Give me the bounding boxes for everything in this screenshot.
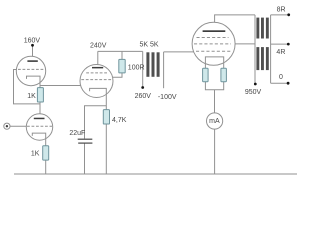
V2 anode bar [34, 118, 45, 120]
V1 cathode [27, 76, 41, 85]
transformer T1 core bars [146, 52, 149, 77]
pentode V3 envelope [80, 65, 113, 98]
node dot 260V [141, 86, 144, 89]
triode V1 envelope [16, 56, 45, 85]
svg-text:8R: 8R [277, 7, 286, 14]
svg-text:-100V: -100V [158, 94, 177, 101]
node dot 4R [287, 43, 290, 46]
svg-text:240V: 240V [90, 43, 107, 50]
wire 240V rail to interstage [98, 50, 143, 52]
svg-text:160V: 160V [24, 38, 41, 45]
wire V1 cathode to V3 grid [40, 85, 81, 87]
wire V3 cathode branch to C1 [85, 106, 107, 139]
svg-text:100R: 100R [128, 65, 145, 72]
node dot 160V [31, 44, 34, 47]
V4 anode bar [203, 30, 226, 32]
V4 grid 2 (dashed) [194, 43, 231, 45]
svg-text:1K: 1K [27, 93, 36, 100]
wire 4R tap [271, 43, 289, 45]
V3 cathode [90, 88, 107, 109]
V1 grid (dashed) [18, 68, 45, 70]
svg-text:5K 5K: 5K 5K [139, 42, 158, 49]
triode V2 envelope [26, 114, 52, 140]
transformer T2 lower core bars [256, 47, 259, 70]
V2 cathode [32, 133, 45, 146]
pentode V3 plate lead [97, 51, 99, 67]
svg-text:mA: mA [209, 118, 220, 125]
transformer T1 primary winding line [142, 51, 144, 86]
svg-text:4R: 4R [276, 49, 285, 56]
V3 control grid (dashed) [81, 79, 112, 81]
resistor 100R leads [112, 51, 122, 77]
transformer T2 secondary line [270, 15, 272, 83]
wire input to V2 grid [10, 125, 27, 127]
pentode V4 plate lead and wire to T2 [215, 15, 255, 30]
resistor R2 1K [43, 146, 49, 160]
wire V4 screen tap to T2 [235, 43, 255, 45]
resistor R2 1K bottom lead [45, 160, 47, 174]
transformer T2 upper core bars [256, 18, 259, 39]
capacitor C1 bottom lead [84, 143, 86, 174]
cathode resistor R5 [221, 68, 227, 81]
node dot 950V [254, 83, 257, 86]
transformer T2 primary line [254, 15, 256, 83]
svg-text:1K: 1K [31, 151, 40, 158]
input terminal [4, 123, 10, 129]
resistor R3 4.7K [103, 110, 109, 124]
V3 anode bar [92, 67, 103, 69]
cathode resistor leads and meter wire [205, 82, 223, 113]
V4 cathode [205, 57, 223, 68]
resistor 100R [119, 59, 125, 73]
V2 grid (dashed) [27, 125, 52, 127]
wire 8R tap [271, 14, 289, 16]
capacitor C1 plates [78, 139, 93, 140]
resistor R1 1K [37, 88, 43, 102]
svg-text:22uF: 22uF [69, 130, 85, 137]
meter mA envelope [207, 113, 223, 129]
node dot 8R [287, 13, 290, 16]
transformer T1 secondary winding line [163, 52, 165, 88]
cathode resistor R4 [203, 68, 209, 81]
V1 anode bar [27, 60, 37, 62]
svg-text:950V: 950V [245, 89, 262, 96]
node 160V terminal lead [32, 46, 34, 60]
pentode V4 envelope [192, 22, 235, 65]
node dot input center [6, 125, 8, 127]
svg-text:4,7K: 4,7K [112, 117, 127, 124]
svg-text:260V: 260V [135, 93, 152, 100]
ground rail [14, 173, 297, 175]
V3 screen grid (dashed) [86, 72, 108, 74]
meter bottom lead [214, 129, 216, 174]
wire V1 grid to V2 plate (SRPP feedback) [14, 70, 41, 104]
node dot 0 [287, 82, 290, 85]
wire T1 secondary to V4 grid [164, 51, 195, 53]
svg-text:0: 0 [279, 74, 283, 81]
wire 0 tap [271, 82, 289, 84]
V4 grid 3 (dashed) [197, 37, 229, 39]
resistor R3 4.7K bottom lead [105, 124, 107, 174]
resistor R1 1K leads [39, 86, 41, 118]
V4 grid 1 (dashed) [196, 50, 231, 52]
